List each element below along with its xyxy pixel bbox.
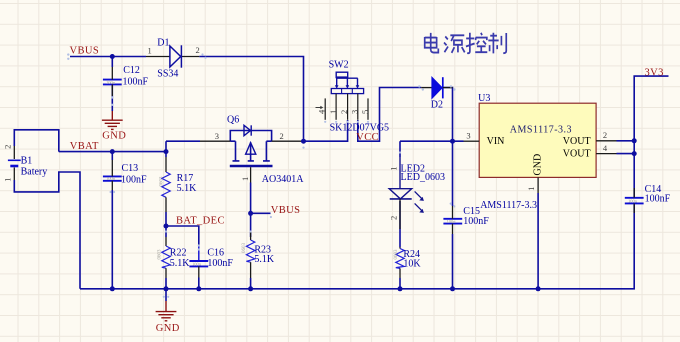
wire Q6 gate to R23 and VBUS stub [251,183,271,289]
switch SW2 [331,72,363,93]
pin SW2 4 [316,98,327,119]
regulator U3 [479,103,596,177]
svg-text:2: 2 [603,130,607,140]
svg-text:3V3: 3V3 [645,67,664,78]
wire U3 GND pin to rail [537,193,539,289]
svg-text:10K: 10K [403,259,421,270]
pin SW2 1 [328,94,338,120]
wire BAT_DEC stub to C16 [166,226,199,247]
svg-text:VBUS: VBUS [70,45,100,56]
svg-text:1: 1 [389,167,399,171]
svg-text:1: 1 [526,187,536,191]
resistor R24 [394,247,404,278]
pin D1 anode 1 [146,45,170,56]
svg-text:100n: 100n [628,199,638,204]
svg-text:D2: D2 [431,100,443,111]
wire VBAT net [59,141,200,151]
wire C12 bottom lead to GND [111,85,113,111]
svg-text:GND: GND [102,131,126,142]
svg-text:B1: B1 [21,156,33,167]
svg-text:2: 2 [196,45,200,55]
svg-text:BAT_DEC: BAT_DEC [176,216,225,227]
pin U3 3 VIN [464,130,480,141]
wire main row to SW2 pin2 [304,120,348,141]
svg-text:GND: GND [156,323,180,334]
wire LED2 to R24 [399,201,401,289]
wire D1 to Q6 junction [199,57,303,142]
svg-text:VOUT: VOUT [563,148,591,159]
svg-text:0603: 0603 [158,249,163,260]
svg-text:2: 2 [280,131,284,141]
pin battery 1 [3,168,15,182]
pin D1 cathode 2 [181,45,200,57]
svg-text:100n: 100n [192,261,202,266]
wire ground rail [80,205,634,289]
svg-text:D1: D1 [157,38,169,49]
svg-text:C12: C12 [123,65,140,76]
pin U3 1 GND [526,177,538,193]
ground GND bottom [165,289,167,301]
capacitor C13 [103,176,122,180]
svg-text:VBAT: VBAT [70,141,99,152]
svg-text:C13: C13 [122,163,139,174]
resistor R23 [242,232,255,278]
title 电源控制 [425,33,507,54]
pin SW2 5 [360,98,370,119]
svg-text:C16: C16 [207,247,224,258]
svg-text:VBUS: VBUS [271,205,301,216]
svg-text:VOUT: VOUT [563,136,591,147]
svg-text:SS34: SS34 [157,69,178,80]
pin U3 4 VOUT [596,143,616,154]
svg-text:4: 4 [603,143,608,153]
svg-text:1: 1 [328,110,338,114]
pin Q6 1 [240,167,251,182]
wire C12 top lead [111,57,113,68]
wire R22 leads [165,226,167,289]
svg-text:SW2: SW2 [329,60,349,71]
hotspot marks [67,53,455,298]
capacitor C15 [443,219,462,224]
svg-text:1: 1 [240,177,250,181]
svg-text:4: 4 [317,109,327,114]
resistor R17 [160,157,171,212]
svg-text:5.1K: 5.1K [254,254,275,265]
svg-text:R22: R22 [170,247,187,258]
svg-text:2: 2 [3,145,13,149]
transistor Q6 [230,125,273,166]
svg-text:3: 3 [215,131,219,141]
capacitor C16 [189,261,208,266]
wire 3V3 bus [634,76,668,197]
svg-text:GND: GND [533,154,544,176]
pin U3 2 VOUT [596,130,616,141]
wire battery top loop [14,130,59,152]
pin Q6 2 [272,131,304,141]
capacitor C12 [103,80,122,85]
pin SW2 3 [350,94,360,120]
svg-text:Batery: Batery [21,166,48,177]
wire VBUS stub [70,56,146,58]
ground GND under C12 [102,111,123,129]
LED LED2 [389,157,424,229]
wire C13 leads [111,152,113,289]
svg-text:100nF: 100nF [121,175,147,186]
svg-text:100nF: 100nF [123,77,149,88]
svg-text:3: 3 [466,130,470,140]
wire R17 leads [165,152,167,226]
svg-text:5.1K: 5.1K [177,183,198,194]
resistor R22 [158,237,171,278]
wire U3 VOUT pins to 3V3 bus [617,141,635,154]
wire battery bottom to rail [14,172,80,289]
pin SW2 2 [339,94,349,120]
svg-text:VCC: VCC [356,132,379,143]
diode D1 [170,45,182,67]
svg-text:100nF: 100nF [645,194,671,205]
svg-text:AMS1117-3.3: AMS1117-3.3 [510,124,572,135]
pin Q6 3 [200,131,230,141]
svg-text:100n: 100n [106,176,116,181]
svg-text:5: 5 [360,110,370,114]
wire VCC net SW2 pin3 to D2 [358,88,421,142]
wire D2 cathode to VIN row [444,88,453,142]
wire C16 bottom lead [198,278,200,289]
svg-text:1: 1 [3,178,13,182]
svg-text:3: 3 [350,110,360,114]
capacitor C14 [625,198,644,204]
svg-text:VIN: VIN [487,136,505,147]
pin battery 2 [3,145,15,159]
svg-text:AO3401A: AO3401A [262,174,304,185]
svg-text:Q6: Q6 [227,114,239,125]
svg-text:100n: 100n [447,219,457,224]
svg-text:U3: U3 [478,93,490,104]
svg-text:LED_0603: LED_0603 [401,172,445,183]
wire C15 leads [452,141,454,289]
svg-text:0603: 0603 [394,249,399,260]
svg-text:AMS1117-3.3: AMS1117-3.3 [480,200,537,211]
svg-text:100nF: 100nF [207,258,233,269]
svg-text:100nF: 100nF [463,216,489,227]
diode D2 [421,77,452,98]
svg-text:2: 2 [389,216,399,220]
svg-text:0603: 0603 [160,176,165,187]
wire VIN row after D2 [400,141,464,157]
svg-text:1: 1 [148,45,152,55]
svg-text:0603: 0603 [242,243,247,254]
battery B1 [8,156,47,178]
svg-text:2: 2 [339,110,349,114]
svg-text:100n: 100n [106,80,116,85]
svg-text:5.1K: 5.1K [170,258,191,269]
